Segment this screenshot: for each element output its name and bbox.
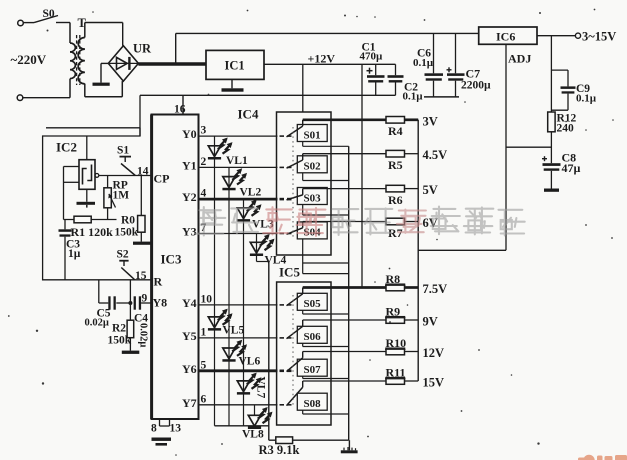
svg-text:VL6: VL6	[239, 356, 261, 368]
label IC2	[56, 140, 77, 155]
wire tap line	[417, 120, 419, 381]
label IC4	[238, 107, 259, 122]
svg-text:R1 120k: R1 120k	[71, 225, 114, 239]
svg-text:VL2: VL2	[240, 187, 262, 199]
label pin 9	[142, 293, 148, 305]
svg-text:1M: 1M	[113, 190, 130, 202]
svg-text:15V: 15V	[423, 376, 445, 390]
resistor R8	[386, 284, 405, 291]
wire row 9V	[303, 319, 419, 321]
wire IC3 pin16 tick	[182, 95, 184, 114]
label R10	[385, 336, 406, 350]
resistor R5	[386, 150, 405, 157]
label C5	[85, 308, 111, 329]
svg-text:4.5V: 4.5V	[423, 148, 448, 162]
wire raw DC top rail	[176, 32, 479, 34]
svg-text:CP: CP	[154, 172, 170, 186]
wire S05 bottom terminal	[303, 310, 349, 314]
wire IC2 loop	[43, 128, 152, 280]
svg-text:9: 9	[142, 293, 148, 305]
wire row Y1 pin 2	[182, 156, 292, 173]
resistor R7	[386, 218, 405, 225]
svg-text:2: 2	[201, 156, 207, 168]
svg-text:0.1µ: 0.1µ	[413, 57, 434, 69]
svg-text:IC6: IC6	[496, 30, 515, 44]
svg-text:S0: S0	[43, 8, 55, 20]
svg-text:UR: UR	[133, 42, 152, 56]
label 12V	[423, 346, 445, 360]
wire row Y6 pin 5	[182, 359, 292, 376]
label R7	[388, 226, 403, 240]
svg-text:Y1: Y1	[182, 158, 197, 172]
resistor R10	[386, 348, 405, 355]
label 9V	[423, 315, 438, 329]
capacitor C2	[388, 64, 404, 95]
svg-text:S1: S1	[117, 145, 129, 157]
ic IC5 box	[277, 282, 331, 425]
wire row 7.5V	[303, 286, 419, 289]
label 5V	[423, 183, 438, 197]
svg-text:IC4: IC4	[238, 107, 259, 122]
svg-text:S02: S02	[304, 161, 322, 173]
label ~220V	[11, 52, 47, 67]
label ADJ	[508, 52, 531, 66]
svg-text:C7: C7	[466, 67, 481, 81]
svg-text:0.1µ: 0.1µ	[403, 91, 424, 103]
svg-text:S08: S08	[304, 398, 322, 410]
wire S06 bottom terminal	[303, 343, 349, 346]
wire LED column 4	[257, 234, 269, 441]
ic IC6	[479, 27, 537, 44]
wire S08 bottom terminal	[303, 410, 349, 414]
svg-text:R: R	[154, 275, 163, 289]
capacitor C1	[367, 64, 385, 95]
label R1	[71, 225, 114, 239]
svg-text:9V: 9V	[423, 315, 438, 329]
label R12	[557, 113, 577, 135]
bridge rectifier UR	[108, 46, 138, 81]
wire row 4.5V	[303, 153, 419, 155]
wire row Y4 pin 10	[182, 293, 292, 310]
wire S07 bottom terminal	[303, 376, 349, 378]
svg-text:S05: S05	[304, 298, 322, 310]
wire gate top	[86, 136, 88, 160]
resistor R6	[386, 185, 405, 192]
resistor R3	[276, 437, 293, 444]
label C1	[360, 42, 384, 63]
label R9	[385, 305, 406, 319]
label +12V	[308, 52, 336, 66]
label R2	[108, 323, 132, 347]
switch S07	[287, 352, 328, 377]
wire IC2 loop upper	[46, 127, 140, 129]
label pin 13	[170, 423, 182, 435]
svg-text:ADJ: ADJ	[508, 52, 531, 66]
svg-text:Y2: Y2	[182, 190, 197, 204]
svg-text:3V: 3V	[423, 114, 438, 128]
schmitt gate IC2	[79, 160, 99, 190]
switch S05	[287, 288, 328, 311]
svg-text:10: 10	[201, 293, 213, 305]
capacitor C3	[59, 220, 72, 280]
label R11	[385, 366, 406, 380]
wire riser to IC4	[302, 64, 304, 112]
label R8	[385, 272, 406, 286]
wire raw DC riser	[175, 33, 177, 64]
resistor R11	[386, 378, 405, 385]
potentiometer RP	[104, 176, 116, 220]
label RP	[113, 180, 130, 202]
svg-text:15: 15	[135, 270, 147, 282]
label IC5	[279, 265, 300, 280]
svg-text:IC2: IC2	[56, 140, 77, 155]
svg-text:3: 3	[201, 125, 207, 137]
svg-text:VL4: VL4	[265, 255, 287, 267]
svg-text:VL8: VL8	[242, 429, 264, 441]
capacitor C7	[447, 33, 465, 97]
wire gate output CP	[99, 175, 152, 177]
wire row Y0 pin 3	[182, 125, 292, 142]
wire LED column 3	[243, 199, 245, 426]
wire divider drop	[550, 36, 552, 112]
svg-text:470µ: 470µ	[360, 51, 384, 63]
wire ADJ to tap line	[418, 249, 506, 251]
svg-text:+12V: +12V	[308, 52, 336, 66]
wire gang link IC5	[292, 295, 294, 406]
led VL1	[208, 138, 248, 168]
svg-text:1: 1	[201, 326, 207, 338]
svg-text:R10: R10	[386, 336, 407, 350]
transformer T secondary winding	[78, 23, 85, 84]
switch S0	[34, 8, 58, 23]
svg-text:7.5V: 7.5V	[423, 282, 448, 296]
resistor R2	[122, 303, 140, 354]
label pin 8	[151, 423, 157, 435]
label C6	[413, 48, 434, 70]
svg-text:2200µ: 2200µ	[461, 80, 491, 92]
svg-text:0.02µ: 0.02µ	[85, 318, 109, 329]
wire R3 row	[269, 439, 349, 441]
svg-text:14: 14	[137, 166, 149, 178]
label 3V	[423, 114, 438, 128]
wire cap ground bar right	[424, 96, 459, 98]
wire row Y5 pin 1	[182, 326, 292, 343]
led VL2	[222, 168, 261, 198]
ic IC3 box	[150, 115, 198, 420]
label C2	[403, 82, 424, 103]
svg-text:12V: 12V	[423, 346, 445, 360]
capacitor C6	[425, 33, 444, 97]
capacitor C5	[108, 296, 116, 309]
svg-text:R4: R4	[388, 124, 403, 138]
wire S03 bottom terminal	[303, 205, 349, 216]
svg-text:8: 8	[151, 423, 157, 435]
label 15V	[423, 376, 445, 390]
svg-text:4: 4	[201, 188, 207, 200]
svg-text:VL1: VL1	[226, 155, 248, 167]
wire row 3V	[303, 118, 419, 121]
bridge minus bar	[93, 83, 110, 86]
wire row Y7 pin 6	[182, 393, 292, 410]
svg-text:R0: R0	[121, 215, 135, 227]
svg-text:Y0: Y0	[182, 127, 197, 141]
svg-text:1µ: 1µ	[68, 248, 81, 260]
switch S01	[287, 120, 328, 142]
svg-text:Y7: Y7	[182, 396, 197, 410]
transformer T core	[77, 35, 80, 85]
label 6V	[423, 216, 438, 230]
wire C5 to junction	[116, 302, 130, 304]
svg-text:Y4: Y4	[182, 296, 197, 310]
wire secondary top to bridge	[85, 23, 123, 46]
terminal lower mains input	[17, 95, 23, 101]
svg-text:R11: R11	[386, 366, 406, 380]
wire lower mains	[23, 97, 70, 99]
led VL6	[222, 340, 260, 368]
svg-text:~220V: ~220V	[11, 52, 47, 67]
led VL4	[250, 234, 287, 267]
label C9	[576, 83, 597, 105]
terminal output	[575, 33, 580, 38]
label Y8	[153, 296, 168, 310]
wire bridge minus stub	[101, 63, 108, 82]
label pin 15	[135, 270, 147, 282]
label C3	[66, 239, 81, 261]
resistor R0	[133, 176, 151, 245]
label T	[78, 16, 87, 30]
wire row 6V	[303, 221, 419, 223]
ground IC3	[152, 438, 172, 446]
wire row 5V	[303, 188, 419, 190]
svg-text:S03: S03	[304, 192, 322, 204]
label R reset	[154, 275, 163, 289]
wire S02 bottom terminal	[303, 173, 349, 181]
wire +12V rail	[264, 63, 396, 65]
transformer T primary winding	[70, 23, 75, 98]
svg-text:6: 6	[201, 393, 207, 405]
wire cathode rail	[215, 425, 269, 427]
switch S1	[117, 145, 135, 176]
svg-text:VL7: VL7	[255, 377, 267, 399]
label pin 14	[137, 166, 149, 178]
pin 8 13 bracket	[160, 419, 170, 426]
label C7	[461, 67, 491, 92]
svg-text:S01: S01	[304, 129, 321, 141]
wire switch bus	[348, 146, 350, 440]
switch S08	[287, 381, 328, 410]
resistor R9	[386, 317, 405, 324]
wire riser to divider top	[361, 64, 363, 287]
label C8	[562, 151, 581, 176]
switch S2	[117, 249, 136, 281]
wire gate input bracket	[64, 167, 80, 220]
wire row Y3 pin 7	[182, 222, 292, 239]
svg-text:150k: 150k	[115, 227, 139, 239]
led VL5	[208, 309, 245, 337]
led VL7	[237, 373, 267, 399]
capacitor C4	[134, 296, 142, 309]
label 7.5V	[423, 282, 448, 296]
resistor R1	[74, 216, 91, 223]
svg-text:5: 5	[201, 359, 207, 371]
switch S04	[287, 222, 328, 239]
wire LED column 2	[228, 167, 230, 425]
resistor R12	[548, 112, 555, 132]
wire bridge output thick	[138, 62, 206, 65]
label R4	[388, 124, 403, 138]
svg-text:Y6: Y6	[182, 362, 197, 376]
svg-text:Y3: Y3	[182, 225, 197, 239]
resistor R4	[386, 117, 405, 124]
wire R1 row	[64, 219, 117, 221]
label 4.5V	[423, 148, 448, 162]
ground C8 bar	[544, 189, 559, 192]
wire VL8 hang	[254, 405, 256, 416]
led VL3	[237, 200, 274, 231]
wire row 15V	[303, 380, 419, 382]
label R6	[388, 193, 403, 207]
svg-text:150k: 150k	[108, 335, 132, 347]
ground IC1	[222, 79, 244, 91]
label 3~15V	[582, 30, 616, 44]
label C4	[134, 313, 148, 325]
svg-text:0.02µ: 0.02µ	[138, 323, 149, 347]
wire C4 to pin9	[141, 302, 151, 304]
wire R12 to ADJ junction	[506, 132, 551, 163]
wire S04 bottom terminal	[303, 239, 349, 274]
wire IC2 loop riser	[139, 95, 141, 136]
wire VL8 to rail	[254, 425, 256, 427]
svg-text:3~15V: 3~15V	[582, 30, 616, 44]
svg-text:VL5: VL5	[223, 325, 245, 337]
label CP	[154, 172, 170, 186]
wire row 12V	[303, 351, 419, 353]
wire S0 to transformer	[56, 22, 70, 24]
watermark text band	[196, 207, 525, 236]
terminal upper mains input	[18, 20, 34, 26]
svg-text:S2: S2	[117, 249, 129, 261]
svg-text:IC3: IC3	[161, 252, 182, 267]
label R0	[115, 215, 139, 239]
led VL8	[242, 407, 273, 441]
wire row Y2 pin 4	[182, 188, 292, 205]
label C4 value rotated	[138, 323, 149, 347]
wire common rail	[140, 94, 396, 96]
svg-text:Y5: Y5	[182, 329, 197, 343]
capacitor C9	[551, 70, 575, 110]
capacitor C8	[542, 156, 561, 188]
switch S03	[287, 188, 328, 205]
ground main	[341, 440, 358, 453]
switch S02	[287, 154, 328, 173]
svg-text:5V: 5V	[423, 183, 438, 197]
label IC3	[161, 252, 182, 267]
svg-text:0.1µ: 0.1µ	[576, 93, 597, 105]
wire IC6 output	[537, 35, 575, 37]
wire C5 drop	[99, 280, 109, 303]
wire S2 junction drop	[128, 280, 132, 305]
label R3	[259, 443, 300, 457]
label UR	[133, 42, 152, 56]
ic IC4 box	[277, 112, 332, 255]
wire LED column 1	[214, 136, 216, 426]
wire gang link IC4	[292, 127, 294, 237]
svg-text:240: 240	[557, 123, 575, 135]
svg-text:47µ: 47µ	[562, 161, 581, 175]
svg-text:R2: R2	[112, 323, 126, 335]
svg-text:R3 9.1k: R3 9.1k	[259, 443, 300, 457]
svg-text:S07: S07	[304, 364, 322, 376]
svg-text:IC1: IC1	[225, 59, 245, 73]
svg-text:R6: R6	[388, 193, 403, 207]
pin 16 label	[174, 104, 186, 116]
svg-text:R9: R9	[386, 305, 401, 319]
svg-text:R5: R5	[388, 158, 403, 172]
wire S01 bottom terminal	[303, 142, 349, 147]
svg-text:S06: S06	[304, 331, 322, 343]
svg-text:R8: R8	[386, 272, 401, 286]
label R5	[388, 158, 403, 172]
ground gate	[77, 189, 96, 207]
wire ADJ	[505, 44, 507, 250]
ic IC1	[206, 50, 264, 79]
svg-text:Y8: Y8	[153, 296, 168, 310]
switch S06	[287, 320, 328, 343]
wire secondary bottom to bridge	[85, 81, 123, 97]
svg-text:13: 13	[170, 423, 182, 435]
watermark corner mark	[578, 455, 627, 460]
svg-text:IC5: IC5	[279, 265, 300, 280]
